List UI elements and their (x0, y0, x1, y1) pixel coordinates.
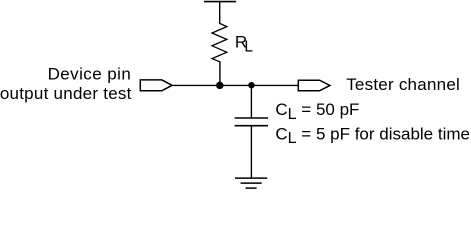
supply rail bar (top) (204, 1, 236, 3)
wire: node A to node B (220, 84, 252, 86)
wire: left terminal to node A (172, 84, 220, 86)
tester channel terminal (right connector) (298, 80, 330, 91)
device pin terminal (left connector) (140, 80, 172, 91)
wire: node B to right terminal (251, 84, 298, 86)
wire: rail to resistor (219, 2, 221, 24)
text: Tester channel (346, 75, 460, 94)
ground bar 3 (246, 187, 257, 189)
node A junction dot (216, 82, 223, 89)
resistor RL (212, 23, 227, 61)
label RL (235, 32, 254, 55)
svg-text:output under test: output under test (0, 84, 132, 103)
node B junction dot (248, 82, 254, 88)
ground bar 2 (241, 182, 262, 184)
svg-text:Device pin: Device pin (48, 65, 131, 84)
ground bar 1 (235, 177, 267, 179)
wire: capacitor to ground (250, 126, 252, 178)
capacitor CL top plate (235, 117, 268, 119)
svg-text:Tester channel: Tester channel (346, 75, 460, 94)
capacitor CL bottom plate (235, 125, 268, 127)
wire: resistor to node A (219, 61, 221, 85)
text: CL = 50 pF (275, 100, 470, 147)
wire: node B down to capacitor (250, 85, 252, 118)
text: Device pin / output under test (0, 65, 132, 103)
